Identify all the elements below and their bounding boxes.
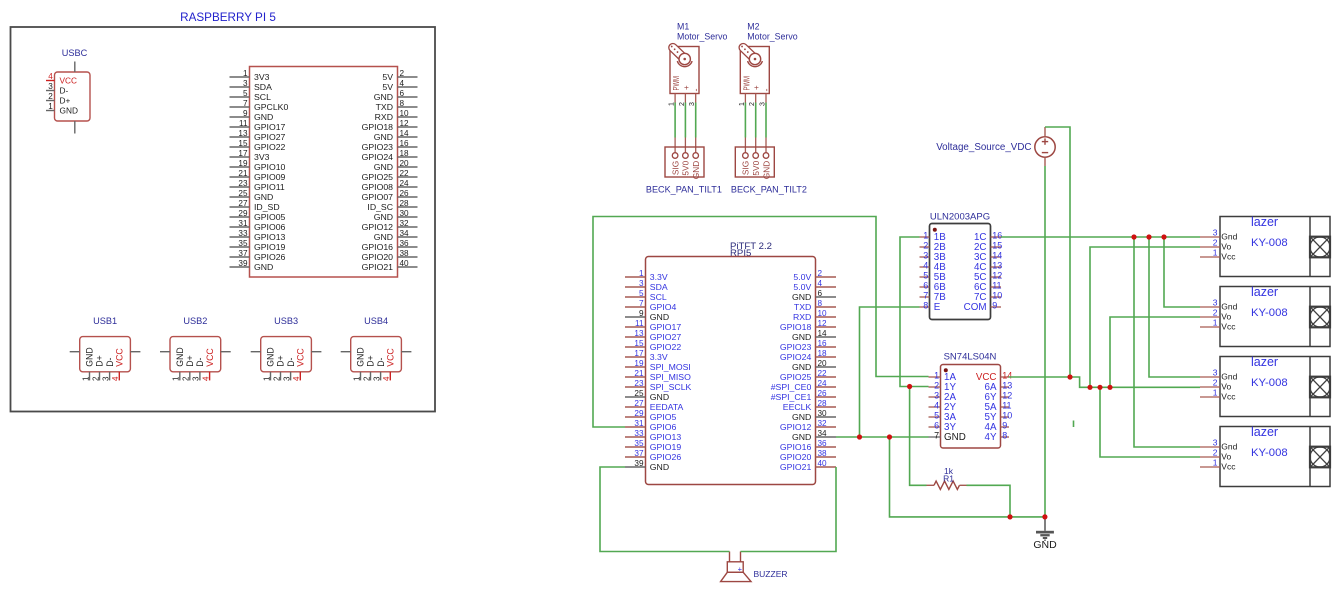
svg-text:USB1: USB1 (93, 316, 117, 326)
svg-text:1: 1 (923, 231, 928, 241)
svg-text:40: 40 (400, 259, 410, 268)
svg-text:10: 10 (992, 291, 1002, 301)
svg-text:GPIO27: GPIO27 (650, 332, 682, 342)
svg-text:#SPI_CE0: #SPI_CE0 (771, 382, 812, 392)
svg-text:SCL: SCL (650, 292, 667, 302)
svg-text:GND: GND (374, 232, 393, 242)
svg-text:28: 28 (400, 199, 410, 208)
svg-text:15: 15 (634, 339, 644, 348)
svg-text:GPIO23: GPIO23 (780, 342, 812, 352)
svg-text:+: + (738, 565, 743, 574)
svg-text:Gnd: Gnd (1221, 442, 1237, 452)
svg-text:2: 2 (923, 241, 928, 251)
svg-text:GND: GND (254, 262, 273, 272)
svg-text:3: 3 (282, 376, 291, 381)
svg-text:27: 27 (634, 399, 644, 408)
svg-text:GND: GND (650, 462, 669, 472)
svg-text:Vcc: Vcc (1221, 462, 1236, 472)
svg-text:5.0V: 5.0V (793, 282, 811, 292)
svg-text:Motor_Servo: Motor_Servo (747, 32, 797, 42)
svg-text:ULN2003APG: ULN2003APG (930, 212, 990, 223)
svg-text:1: 1 (262, 376, 271, 381)
svg-text:27: 27 (238, 199, 248, 208)
svg-text:GND: GND (761, 161, 771, 179)
svg-text:14: 14 (400, 129, 410, 138)
svg-text:GND: GND (374, 162, 393, 172)
svg-text:21: 21 (634, 369, 644, 378)
svg-text:15: 15 (992, 241, 1002, 251)
svg-text:1: 1 (172, 376, 181, 381)
svg-text:GND: GND (254, 192, 273, 202)
svg-text:3: 3 (923, 251, 928, 261)
svg-text:4: 4 (201, 376, 210, 381)
svg-text:USBC: USBC (62, 48, 88, 58)
svg-text:22: 22 (400, 169, 410, 178)
svg-text:GPCLK0: GPCLK0 (254, 102, 288, 112)
svg-text:GPIO16: GPIO16 (780, 442, 812, 452)
svg-text:26: 26 (818, 389, 828, 398)
svg-text:28: 28 (818, 399, 828, 408)
svg-text:15: 15 (238, 139, 248, 148)
svg-text:2: 2 (48, 92, 53, 101)
svg-text:GPIO25: GPIO25 (780, 372, 812, 382)
svg-text:PWM: PWM (672, 76, 681, 91)
svg-text:3V3: 3V3 (254, 72, 270, 82)
svg-text:2: 2 (91, 376, 100, 381)
svg-text:34: 34 (400, 229, 410, 238)
svg-text:GND: GND (85, 347, 95, 367)
svg-text:GPIO22: GPIO22 (254, 142, 286, 152)
svg-text:D+: D+ (276, 355, 286, 367)
svg-text:RXD: RXD (793, 312, 811, 322)
svg-text:24: 24 (400, 179, 410, 188)
svg-text:GPIO6: GPIO6 (650, 422, 677, 432)
svg-text:EEDATA: EEDATA (650, 402, 684, 412)
svg-text:GPIO23: GPIO23 (362, 142, 394, 152)
svg-text:Vo: Vo (1221, 312, 1231, 322)
svg-text:VCC: VCC (205, 348, 215, 367)
svg-text:GPIO10: GPIO10 (254, 162, 286, 172)
svg-text:10: 10 (818, 309, 828, 318)
svg-text:7: 7 (639, 299, 644, 308)
svg-text:25: 25 (238, 189, 248, 198)
svg-text:29: 29 (238, 209, 248, 218)
svg-text:+: + (752, 85, 761, 90)
svg-text:TXD: TXD (376, 102, 393, 112)
svg-text:3: 3 (243, 79, 248, 88)
svg-text:COM: COM (964, 302, 987, 313)
svg-text:16: 16 (992, 231, 1002, 241)
svg-text:19: 19 (634, 359, 644, 368)
svg-text:GPIO26: GPIO26 (650, 452, 682, 462)
svg-text:6: 6 (818, 289, 823, 298)
svg-text:5: 5 (923, 271, 928, 281)
svg-text:GND: GND (944, 432, 966, 443)
svg-text:12: 12 (992, 271, 1002, 281)
svg-text:GPIO18: GPIO18 (362, 122, 394, 132)
svg-text:#SPI_CE1: #SPI_CE1 (771, 392, 812, 402)
svg-text:D+: D+ (366, 355, 376, 367)
svg-text:GPIO06: GPIO06 (254, 222, 286, 232)
svg-text:SCL: SCL (254, 92, 271, 102)
svg-text:9: 9 (1002, 421, 1007, 431)
svg-text:4: 4 (48, 72, 53, 81)
svg-text:10: 10 (400, 109, 410, 118)
svg-text:BUZZER: BUZZER (754, 569, 788, 579)
svg-text:lazer: lazer (1251, 355, 1278, 369)
svg-text:2: 2 (818, 269, 823, 278)
svg-text:USB4: USB4 (364, 316, 388, 326)
svg-text:BECK_PAN_TILT1: BECK_PAN_TILT1 (646, 185, 722, 195)
svg-text:3.3V: 3.3V (650, 272, 668, 282)
svg-text:-: - (762, 89, 772, 92)
svg-text:GPIO13: GPIO13 (650, 432, 682, 442)
svg-text:lazer: lazer (1251, 285, 1278, 299)
svg-text:GPIO13: GPIO13 (254, 232, 286, 242)
svg-text:Gnd: Gnd (1221, 232, 1237, 242)
svg-text:1: 1 (1213, 248, 1218, 258)
svg-text:GPIO17: GPIO17 (254, 122, 286, 132)
svg-text:26: 26 (400, 189, 410, 198)
svg-text:9: 9 (992, 301, 997, 311)
svg-text:34: 34 (818, 429, 828, 438)
svg-text:GPIO12: GPIO12 (362, 222, 394, 232)
svg-text:5: 5 (639, 289, 644, 298)
svg-text:9: 9 (243, 109, 248, 118)
svg-text:GND: GND (356, 347, 366, 367)
svg-text:D-: D- (195, 357, 205, 366)
svg-text:3: 3 (48, 82, 53, 91)
svg-text:1: 1 (1213, 318, 1218, 328)
svg-text:13: 13 (634, 329, 644, 338)
svg-text:33: 33 (238, 229, 248, 238)
svg-text:GND: GND (792, 292, 811, 302)
svg-text:30: 30 (400, 209, 410, 218)
svg-text:1: 1 (352, 376, 361, 381)
svg-text:1: 1 (934, 371, 939, 381)
svg-text:GND: GND (266, 347, 276, 367)
svg-text:7: 7 (243, 99, 248, 108)
svg-text:4: 4 (818, 279, 823, 288)
svg-text:GND: GND (175, 347, 185, 367)
svg-text:2: 2 (182, 376, 191, 381)
svg-text:lazer: lazer (1251, 215, 1278, 229)
svg-text:TXD: TXD (794, 302, 811, 312)
svg-text:2: 2 (934, 381, 939, 391)
svg-text:1: 1 (639, 269, 644, 278)
svg-text:M1: M1 (677, 22, 689, 32)
svg-text:KY-008: KY-008 (1251, 237, 1288, 249)
svg-text:Vcc: Vcc (1221, 252, 1236, 262)
svg-text:8: 8 (818, 299, 823, 308)
svg-text:2: 2 (1213, 448, 1218, 458)
svg-text:1: 1 (48, 102, 53, 111)
svg-text:38: 38 (400, 249, 410, 258)
svg-text:36: 36 (818, 439, 828, 448)
svg-text:SPI_SCLK: SPI_SCLK (650, 382, 692, 392)
svg-text:D-: D- (60, 86, 69, 96)
svg-text:SIG: SIG (670, 161, 680, 175)
svg-text:Voltage_Source_VDC: Voltage_Source_VDC (936, 142, 1031, 153)
svg-text:GPIO21: GPIO21 (362, 262, 394, 272)
svg-text:20: 20 (818, 359, 828, 368)
svg-text:KY-008: KY-008 (1251, 377, 1288, 389)
svg-text:lazer: lazer (1251, 425, 1278, 439)
svg-text:2: 2 (1213, 238, 1218, 248)
svg-text:40: 40 (818, 459, 828, 468)
svg-text:11: 11 (635, 319, 644, 328)
svg-text:Gnd: Gnd (1221, 372, 1237, 382)
svg-text:36: 36 (400, 239, 410, 248)
svg-text:39: 39 (634, 459, 644, 468)
svg-text:SPI_MOSI: SPI_MOSI (650, 362, 691, 372)
svg-text:14: 14 (992, 251, 1002, 261)
svg-text:VCC: VCC (296, 348, 306, 367)
svg-text:7: 7 (934, 431, 939, 441)
svg-text:2: 2 (400, 69, 405, 78)
svg-text:6: 6 (400, 89, 405, 98)
svg-text:GPIO26: GPIO26 (254, 252, 286, 262)
svg-text:USB3: USB3 (274, 316, 298, 326)
svg-text:21: 21 (238, 169, 248, 178)
svg-text:2: 2 (362, 376, 371, 381)
svg-text:E: E (934, 302, 941, 313)
svg-text:1: 1 (1213, 388, 1218, 398)
svg-text:GPIO07: GPIO07 (362, 192, 394, 202)
svg-text:8: 8 (923, 301, 928, 311)
svg-text:D-: D- (105, 357, 115, 366)
svg-text:31: 31 (238, 219, 248, 228)
svg-text:5: 5 (934, 411, 939, 421)
svg-text:3.3V: 3.3V (650, 352, 668, 362)
svg-text:5V: 5V (382, 82, 393, 92)
svg-text:29: 29 (634, 409, 644, 418)
svg-text:GND: GND (792, 332, 811, 342)
svg-text:GND: GND (374, 212, 393, 222)
svg-text:35: 35 (238, 239, 248, 248)
svg-text:GND: GND (60, 106, 78, 116)
svg-text:1: 1 (243, 69, 248, 78)
svg-text:5: 5 (243, 89, 248, 98)
svg-text:KY-008: KY-008 (1251, 307, 1288, 319)
svg-text:4: 4 (934, 401, 939, 411)
svg-text:BECK_PAN_TILT2: BECK_PAN_TILT2 (731, 185, 807, 195)
svg-text:39: 39 (238, 259, 248, 268)
svg-text:22: 22 (818, 369, 828, 378)
svg-text:17: 17 (238, 149, 248, 158)
svg-text:20: 20 (400, 159, 410, 168)
svg-text:Vo: Vo (1221, 382, 1231, 392)
svg-text:ID_SC: ID_SC (367, 202, 393, 212)
svg-text:38: 38 (818, 449, 828, 458)
svg-text:Motor_Servo: Motor_Servo (677, 32, 727, 42)
svg-text:GPIO27: GPIO27 (254, 132, 286, 142)
svg-text:GPIO24: GPIO24 (362, 152, 394, 162)
svg-text:4: 4 (292, 376, 301, 381)
svg-text:GND: GND (792, 412, 811, 422)
svg-text:31: 31 (634, 419, 644, 428)
svg-text:5V0: 5V0 (681, 160, 691, 175)
svg-text:23: 23 (634, 379, 644, 388)
svg-text:16: 16 (818, 339, 828, 348)
svg-text:GPIO19: GPIO19 (254, 242, 286, 252)
svg-text:6: 6 (934, 421, 939, 431)
svg-text:11: 11 (992, 281, 1001, 291)
svg-text:KY-008: KY-008 (1251, 447, 1288, 459)
svg-text:SPI_MISO: SPI_MISO (650, 372, 691, 382)
svg-text:GND: GND (691, 161, 701, 179)
svg-text:5V0: 5V0 (751, 160, 761, 175)
svg-text:D+: D+ (185, 355, 195, 367)
svg-text:1: 1 (1213, 458, 1218, 468)
svg-text:GND: GND (254, 112, 273, 122)
svg-text:24: 24 (818, 379, 828, 388)
svg-text:2: 2 (272, 376, 281, 381)
svg-text:Vcc: Vcc (1221, 392, 1236, 402)
svg-text:3: 3 (1213, 298, 1218, 308)
svg-text:4: 4 (382, 376, 391, 381)
svg-text:ID_SD: ID_SD (254, 202, 280, 212)
svg-text:4: 4 (400, 79, 405, 88)
svg-text:3: 3 (101, 376, 110, 381)
svg-text:GND: GND (650, 312, 669, 322)
svg-text:GPIO11: GPIO11 (254, 182, 285, 192)
svg-text:5V: 5V (382, 72, 393, 82)
svg-text:VCC: VCC (115, 348, 125, 367)
svg-text:GPIO17: GPIO17 (650, 322, 682, 332)
svg-text:11: 11 (1002, 401, 1011, 411)
svg-text:R1: R1 (943, 474, 954, 484)
svg-text:1: 1 (81, 376, 90, 381)
svg-text:D-: D- (286, 357, 296, 366)
svg-text:SIG: SIG (741, 161, 751, 175)
svg-text:SN74LS04N: SN74LS04N (944, 352, 997, 363)
svg-text:GND: GND (792, 432, 811, 442)
svg-text:30: 30 (818, 409, 828, 418)
svg-text:3: 3 (1213, 368, 1218, 378)
svg-text:SDA: SDA (650, 282, 668, 292)
svg-text:3V3: 3V3 (254, 152, 270, 162)
svg-text:GPIO25: GPIO25 (362, 172, 394, 182)
svg-text:3: 3 (639, 279, 644, 288)
svg-text:7: 7 (923, 291, 928, 301)
svg-text:23: 23 (238, 179, 248, 188)
svg-text:35: 35 (634, 439, 644, 448)
svg-text:GPIO19: GPIO19 (650, 442, 682, 452)
svg-text:VCC: VCC (60, 76, 78, 86)
svg-text:GND: GND (1033, 539, 1057, 551)
svg-text:VCC: VCC (386, 348, 396, 367)
svg-text:5.0V: 5.0V (793, 272, 811, 282)
svg-text:18: 18 (818, 349, 828, 358)
svg-text:PWM: PWM (742, 76, 751, 91)
svg-text:12: 12 (818, 319, 828, 328)
svg-text:Vo: Vo (1221, 452, 1231, 462)
svg-text:13: 13 (1002, 381, 1012, 391)
svg-text:17: 17 (634, 349, 644, 358)
svg-text:3: 3 (934, 391, 939, 401)
svg-text:GPIO20: GPIO20 (780, 452, 812, 462)
svg-text:4: 4 (923, 261, 928, 271)
svg-text:-: - (691, 89, 701, 92)
svg-text:GND: GND (792, 362, 811, 372)
svg-text:13: 13 (238, 129, 248, 138)
svg-text:D+: D+ (95, 355, 105, 367)
svg-text:USB2: USB2 (183, 316, 207, 326)
svg-text:14: 14 (818, 329, 828, 338)
svg-text:33: 33 (634, 429, 644, 438)
svg-text:4Y: 4Y (985, 432, 997, 443)
svg-text:25: 25 (634, 389, 644, 398)
svg-text:RXD: RXD (375, 112, 393, 122)
svg-text:13: 13 (992, 261, 1002, 271)
svg-text:3: 3 (192, 376, 201, 381)
svg-text:Vo: Vo (1221, 242, 1231, 252)
svg-text:8: 8 (1002, 431, 1007, 441)
svg-text:D-: D- (376, 357, 386, 366)
svg-text:19: 19 (238, 159, 248, 168)
svg-text:14: 14 (1002, 371, 1012, 381)
svg-text:GPIO22: GPIO22 (650, 342, 682, 352)
svg-text:6: 6 (923, 281, 928, 291)
svg-text:GPIO09: GPIO09 (254, 172, 286, 182)
svg-text:GPIO21: GPIO21 (780, 462, 812, 472)
svg-text:11: 11 (239, 119, 248, 128)
svg-text:GPIO20: GPIO20 (362, 252, 394, 262)
svg-text:EECLK: EECLK (783, 402, 812, 412)
svg-text:GND: GND (374, 92, 393, 102)
svg-text:32: 32 (818, 419, 828, 428)
svg-text:8: 8 (400, 99, 405, 108)
svg-text:9: 9 (639, 309, 644, 318)
svg-text:12: 12 (400, 119, 410, 128)
svg-text:37: 37 (634, 449, 644, 458)
svg-text:10: 10 (1002, 411, 1012, 421)
svg-text:GPIO16: GPIO16 (362, 242, 394, 252)
svg-text:16: 16 (400, 139, 410, 148)
svg-text:3: 3 (1213, 228, 1218, 238)
svg-text:3: 3 (1213, 438, 1218, 448)
svg-text:12: 12 (1002, 391, 1012, 401)
svg-text:2: 2 (1213, 378, 1218, 388)
svg-text:32: 32 (400, 219, 410, 228)
svg-text:GND: GND (650, 392, 669, 402)
svg-text:37: 37 (238, 249, 248, 258)
svg-text:RASPBERRY PI 5: RASPBERRY PI 5 (180, 11, 276, 24)
svg-text:GPIO5: GPIO5 (650, 412, 677, 422)
svg-text:3: 3 (372, 376, 381, 381)
svg-text:GPIO24: GPIO24 (780, 352, 812, 362)
svg-text:+: + (682, 85, 691, 90)
svg-text:Vcc: Vcc (1221, 322, 1236, 332)
svg-text:SDA: SDA (254, 82, 272, 92)
svg-text:GPIO08: GPIO08 (362, 182, 394, 192)
svg-text:GND: GND (374, 132, 393, 142)
svg-text:M2: M2 (747, 22, 759, 32)
svg-text:GPIO12: GPIO12 (780, 422, 812, 432)
svg-text:Gnd: Gnd (1221, 302, 1237, 312)
svg-text:GPIO05: GPIO05 (254, 212, 286, 222)
svg-text:D+: D+ (60, 96, 71, 106)
svg-text:4: 4 (111, 376, 120, 381)
svg-text:18: 18 (400, 149, 410, 158)
svg-text:GPIO18: GPIO18 (780, 322, 812, 332)
svg-text:2: 2 (1213, 308, 1218, 318)
svg-text:GPIO4: GPIO4 (650, 302, 677, 312)
svg-text:RPI5: RPI5 (730, 248, 751, 259)
